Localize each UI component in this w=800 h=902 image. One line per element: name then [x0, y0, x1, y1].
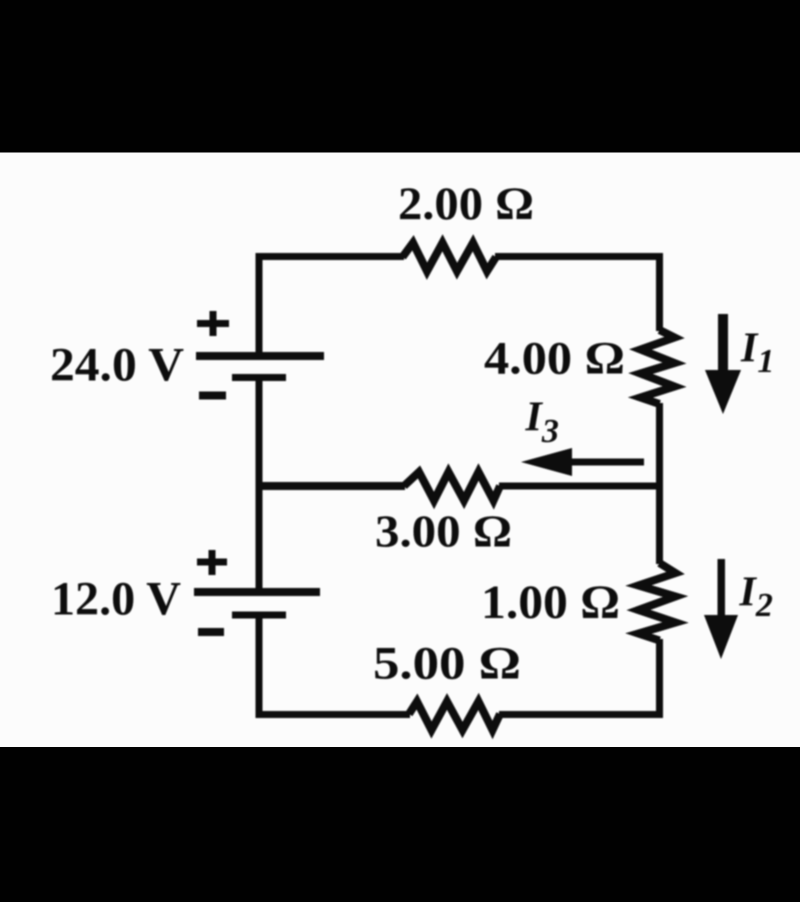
current arrow I2 (downward, right of 1.00 ohm)	[704, 559, 738, 659]
battery B1 24.0 V: short (negative) plate	[232, 374, 286, 381]
battery B2 12.0 V: long (positive) plate	[194, 588, 320, 596]
resistor R 3.00 ohm (middle horizontal zigzag)	[404, 472, 500, 501]
current arrow I3 (leftward, above middle wire)	[521, 448, 644, 476]
resistor R 1.00 ohm (right vertical zigzag lower)	[639, 563, 676, 641]
svg-text:24.0 V: 24.0 V	[50, 339, 184, 392]
minus sign of battery B2	[198, 628, 224, 636]
resistor R 5.00 ohm (bottom horizontal zigzag)	[409, 702, 500, 731]
current arrow I1 (downward, right of 4.00 ohm)	[705, 314, 741, 414]
svg-text:3.00 Ω: 3.00 Ω	[375, 507, 512, 557]
plus sign of battery B1	[197, 311, 229, 336]
resistor R 4.00 ohm (right vertical zigzag)	[641, 330, 675, 404]
wire: left vertical between battery 1 and battery 2	[256, 377, 263, 593]
resistor R 2.00 ohm (top horizontal zigzag)	[403, 243, 497, 271]
wire: middle wire right segment	[499, 483, 660, 490]
wire: right vertical bottom + bottom wire right segment	[499, 639, 660, 715]
bottom black bar	[0, 747, 800, 902]
svg-text:4.00 Ω: 4.00 Ω	[484, 333, 625, 385]
wire: right vertical middle segment	[656, 403, 663, 564]
wire: middle wire left segment	[259, 482, 405, 490]
battery B2 12.0 V: short (negative) plate	[232, 612, 286, 619]
battery B1 24.0 V: long (positive) plate	[196, 352, 324, 360]
minus sign of battery B1	[199, 392, 226, 400]
wire: bottom wire left segment + left vertical bottom	[259, 616, 410, 715]
circuit drawing group	[50, 178, 774, 730]
plus sign of battery B2	[197, 550, 227, 575]
svg-text:2.00 Ω: 2.00 Ω	[398, 178, 534, 230]
svg-text:5.00 Ω: 5.00 Ω	[373, 638, 521, 690]
svg-text:12.0 V: 12.0 V	[51, 573, 181, 626]
wire: top wire right segment + right vertical upper	[495, 257, 660, 332]
top black bar	[0, 0, 800, 153]
wire: left vertical upper + top wire left segment	[259, 257, 404, 357]
white paper background	[0, 153, 800, 748]
svg-text:1.00 Ω: 1.00 Ω	[481, 576, 620, 629]
